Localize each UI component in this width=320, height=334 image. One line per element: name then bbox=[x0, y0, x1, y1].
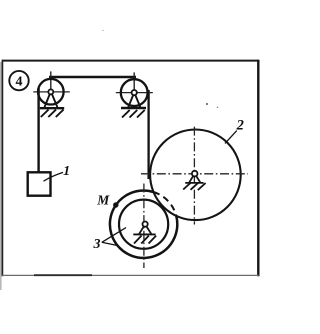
svg-text:1: 1 bbox=[63, 164, 70, 179]
disc 2 horizontal centerline bbox=[141, 173, 248, 175]
fly speck artifacts bbox=[206, 103, 208, 105]
pulley P2 support triangle bbox=[128, 95, 140, 108]
pulley P2 (right): wheel bbox=[121, 79, 148, 106]
disc 2 bbox=[150, 130, 241, 221]
svg-text:3: 3 bbox=[93, 237, 101, 252]
disc 2 vertical centerline bbox=[193, 127, 195, 225]
block 1 (hanging load) bbox=[28, 172, 51, 195]
label 1 leader bbox=[44, 172, 64, 181]
point M on wheel 3 rim bbox=[113, 202, 118, 207]
pulley P1 support triangle bbox=[45, 94, 58, 108]
disc 2 hub pin bbox=[192, 171, 198, 177]
pulley P1 ground hatching bbox=[41, 110, 64, 117]
frame border bottom bbox=[2, 274, 259, 276]
scan edge shading left bbox=[0, 62, 2, 290]
wire: belt over both pulleys bbox=[49, 76, 136, 78]
svg-text:M: M bbox=[96, 193, 110, 208]
pulley P1 (left): wheel bbox=[38, 79, 64, 105]
disc 2 ground hatching bbox=[183, 182, 205, 190]
label 2 leader bbox=[225, 131, 237, 144]
disc 2 ground bar bbox=[185, 182, 203, 184]
label 3 leaders bbox=[102, 228, 126, 246]
hidden (dashed) arc of wheel 3 rim inside disc 2 bbox=[154, 192, 177, 216]
wheel 3 vertical centerline bbox=[143, 184, 145, 269]
pulley P1 (left): axis lines bbox=[33, 91, 70, 93]
wheel 3 support triangle bbox=[139, 226, 151, 234]
wheel 3 inner circle bbox=[119, 200, 168, 249]
svg-text:4: 4 bbox=[16, 75, 23, 90]
wheel 3 ground bar bbox=[133, 233, 155, 235]
wire: rope from left pulley down to block 1 bbox=[37, 88, 39, 173]
pulley P2 (right): axis lines bbox=[116, 92, 153, 94]
disc 2 support triangle bbox=[189, 175, 200, 183]
wheel 3 hub pin bbox=[143, 222, 148, 227]
wire: rope from right pulley down to disc 2 bbox=[147, 90, 149, 179]
pulley P2 hub pin bbox=[132, 90, 137, 95]
pulley P1 ground bar bbox=[40, 107, 64, 109]
frame border right bbox=[257, 60, 259, 276]
circled problem number 4 bbox=[9, 71, 28, 90]
frame border top bbox=[2, 60, 259, 62]
frame border left bbox=[1, 60, 3, 276]
pulley P2 ground bar bbox=[121, 107, 146, 109]
wheel 3 ground hatching bbox=[134, 236, 156, 244]
pulley P1 hub pin bbox=[48, 89, 53, 94]
svg-text:2: 2 bbox=[236, 118, 244, 134]
pulley P2 ground hatching bbox=[122, 110, 145, 118]
wheel 3 outer rim (visible part) bbox=[110, 191, 177, 258]
